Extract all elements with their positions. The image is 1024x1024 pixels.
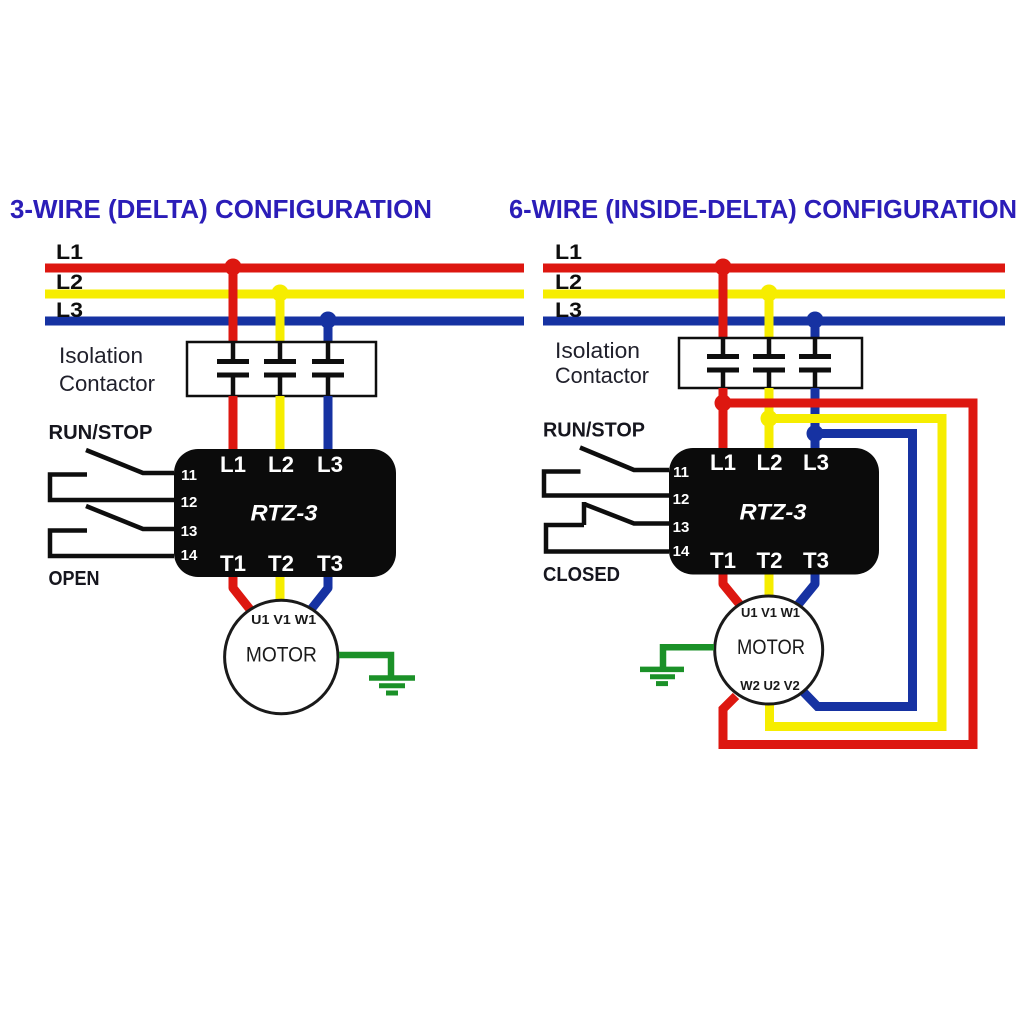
contactor pole 3 right: [799, 338, 831, 388]
contactor pole 1 right: [707, 338, 739, 388]
svg-text:13: 13: [673, 519, 690, 536]
wire contactor to RTZ-3 L1 right (red): [719, 388, 728, 448]
switch S1 contact 11 blade: [86, 450, 174, 473]
svg-text:12: 12: [181, 494, 198, 511]
junction L3 right: [807, 312, 824, 329]
wire T1 to motor U1 right (red): [723, 575, 741, 607]
ground symbol: [369, 678, 415, 693]
junction L1 right: [715, 259, 732, 276]
junction L2 right: [761, 285, 778, 302]
wire L2 drop to contactor (yellow): [276, 294, 285, 342]
junction below contactor L1 right: [715, 395, 732, 412]
motor M2 body: [715, 596, 823, 704]
contactor pole 2 right: [753, 338, 785, 388]
wire T1 to motor U1 (red): [233, 577, 252, 612]
svg-text:L1: L1: [56, 241, 83, 264]
svg-text:L2: L2: [268, 452, 294, 477]
bus wire L2 (yellow): [45, 290, 524, 299]
switch S1 fixed contact and wire to pin 12: [50, 475, 174, 501]
svg-text:T2: T2: [757, 548, 783, 573]
svg-text:L3: L3: [317, 452, 343, 477]
soft starter U1 RTZ-3 body: [174, 449, 396, 577]
wire contactor to RTZ-3 L2 (yellow): [276, 396, 285, 449]
soft starter U2 RTZ-3 body: [669, 448, 879, 575]
svg-text:Contactor: Contactor: [59, 371, 155, 396]
wire contactor to RTZ-3 L2 right (yellow): [765, 388, 774, 448]
inside-delta loop wire to motor W2 (red): [723, 403, 973, 745]
switch S4 closed contact step: [582, 502, 587, 525]
svg-text:L3: L3: [803, 450, 829, 475]
ground wire from motor right (green): [663, 647, 714, 667]
svg-text:RUN/STOP: RUN/STOP: [543, 419, 645, 442]
switch S4 closed contact blade right: [584, 504, 669, 524]
junction L1: [225, 259, 242, 276]
svg-text:L2: L2: [555, 271, 582, 294]
svg-text:3-WIRE (DELTA) CONFIGURATION: 3-WIRE (DELTA) CONFIGURATION: [10, 194, 432, 224]
wire T3 to motor W1 (blue): [309, 577, 328, 612]
svg-text:MOTOR: MOTOR: [737, 636, 805, 659]
contactor pole 3: [312, 342, 344, 396]
svg-text:OPEN: OPEN: [49, 568, 100, 590]
ground wire from motor (green): [339, 655, 391, 676]
svg-text:Contactor: Contactor: [555, 363, 649, 388]
svg-text:T1: T1: [710, 548, 736, 573]
switch S3 fixed contact and wire to pin 12 right: [544, 472, 669, 496]
svg-text:Isolation: Isolation: [59, 343, 143, 368]
ground symbol right: [640, 669, 684, 683]
wire T2 to motor V1 (yellow): [276, 577, 285, 603]
svg-text:T3: T3: [317, 551, 343, 576]
svg-text:6-WIRE (INSIDE-DELTA) CONFIGUR: 6-WIRE (INSIDE-DELTA) CONFIGURATION: [509, 194, 1017, 224]
switch S4 fixed contact and wire to pin 14 right: [546, 525, 669, 552]
svg-text:RTZ-3: RTZ-3: [740, 500, 808, 525]
inside-delta loop wire to motor U2 (yellow): [769, 419, 942, 727]
svg-text:L1: L1: [220, 452, 246, 477]
contactor pole 1: [217, 342, 249, 396]
bus wire L3 right (blue): [543, 317, 1005, 326]
contactor pole 2: [264, 342, 296, 396]
svg-text:14: 14: [181, 547, 198, 564]
junction below contactor L2 right: [761, 410, 778, 427]
wire contactor to RTZ-3 L1 (red): [229, 396, 238, 449]
wire L1 drop to contactor (red): [229, 268, 238, 342]
wire L2 drop to contactor right (yellow): [765, 294, 774, 338]
junction below contactor L3 right: [807, 425, 824, 442]
wire L3 drop to contactor right (blue): [811, 321, 820, 338]
svg-text:RUN/STOP: RUN/STOP: [49, 421, 153, 444]
svg-text:L2: L2: [56, 271, 83, 294]
svg-text:U1 V1 W1: U1 V1 W1: [251, 612, 316, 627]
switch S3 contact 11 blade right: [580, 448, 669, 471]
svg-text:W2 U2 V2: W2 U2 V2: [740, 678, 800, 693]
svg-text:L1: L1: [555, 241, 582, 264]
switch S2 fixed contact and wire to pin 14: [50, 531, 174, 557]
switch S2 contact 13 blade: [86, 506, 174, 529]
isolation contactor box K2: [679, 338, 862, 388]
isolation contactor box K1: [187, 342, 376, 396]
svg-text:T2: T2: [268, 551, 294, 576]
wire contactor to RTZ-3 L3 right (blue): [811, 388, 820, 448]
wire L1 drop to contactor right (red): [719, 268, 728, 338]
svg-text:L1: L1: [710, 450, 736, 475]
inside-delta loop wire to motor V2 (blue): [803, 434, 913, 707]
svg-text:T1: T1: [220, 551, 246, 576]
svg-text:L3: L3: [555, 299, 582, 322]
svg-text:11: 11: [181, 467, 197, 484]
svg-text:RTZ-3: RTZ-3: [251, 501, 319, 526]
bus wire L3 (blue): [45, 317, 524, 326]
bus wire L1 (red): [45, 264, 524, 273]
svg-text:L2: L2: [757, 450, 783, 475]
svg-text:Isolation: Isolation: [555, 338, 640, 363]
svg-text:13: 13: [181, 523, 198, 540]
svg-text:CLOSED: CLOSED: [543, 564, 620, 586]
junction L3: [320, 312, 337, 329]
wire contactor to RTZ-3 L3 (blue): [324, 396, 333, 449]
svg-text:11: 11: [673, 464, 689, 481]
bus wire L2 right (yellow): [543, 290, 1005, 299]
svg-text:L3: L3: [56, 299, 83, 322]
bus wire L1 right (red): [543, 264, 1005, 273]
junction L2: [272, 285, 289, 302]
wire T2 to motor V1 right (yellow): [765, 575, 774, 598]
wire L3 drop to contactor (blue): [324, 321, 333, 342]
svg-text:12: 12: [673, 491, 690, 508]
svg-text:MOTOR: MOTOR: [246, 644, 317, 667]
wire T3 to motor W1 right (blue): [797, 575, 815, 607]
svg-text:T3: T3: [803, 548, 829, 573]
svg-text:U1 V1 W1: U1 V1 W1: [741, 605, 800, 620]
motor M1 body: [225, 600, 338, 713]
svg-text:14: 14: [673, 543, 690, 560]
